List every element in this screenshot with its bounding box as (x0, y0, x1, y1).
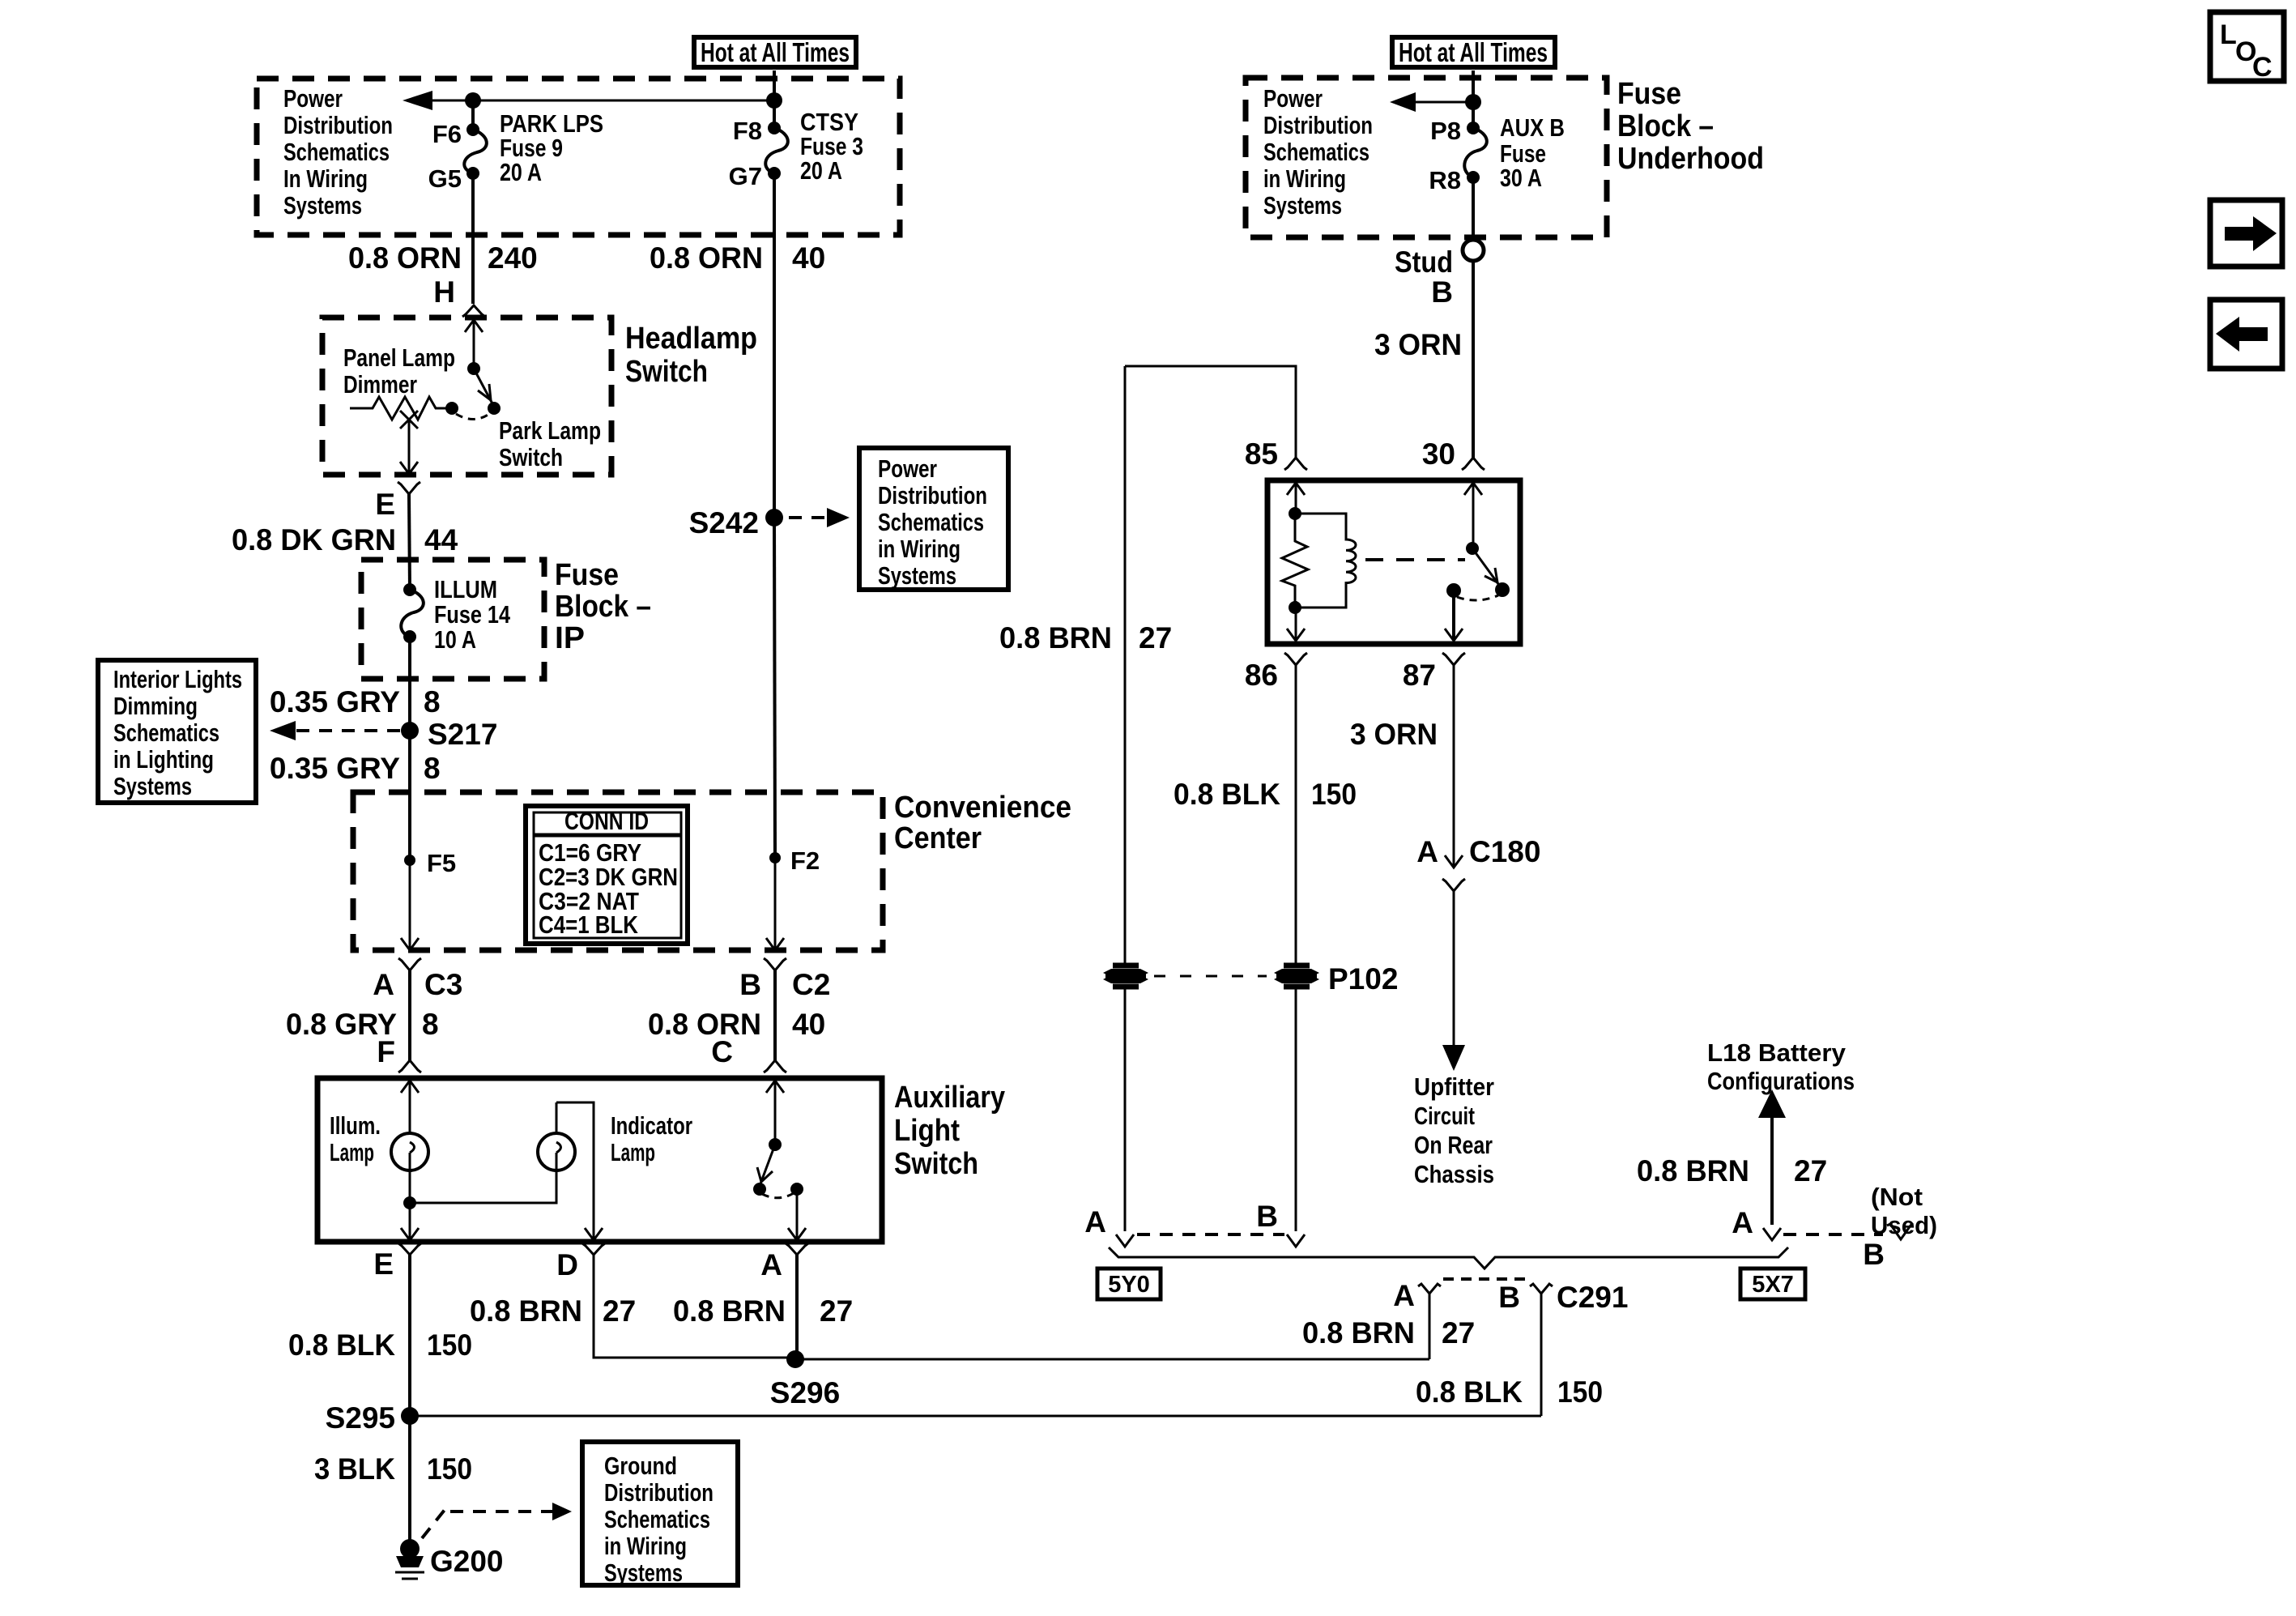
svg-text:Schematics: Schematics (878, 508, 984, 536)
svg-text:0.8 BLK: 0.8 BLK (1416, 1375, 1523, 1409)
svg-text:Block –: Block – (555, 590, 651, 624)
wire: D down and across to S296 (594, 1255, 795, 1358)
wire: E down to S295 (408, 1255, 411, 1416)
svg-text:B: B (739, 968, 761, 1001)
wire: C180 down to upfitter arrow (1442, 891, 1465, 1071)
svg-text:0.8 ORN: 0.8 ORN (650, 241, 763, 275)
label 0.8 ORN 40 / C (648, 1008, 825, 1068)
headlamp switch dashed box (322, 318, 611, 475)
wire: F2 down with exit arrow (766, 858, 784, 950)
note: Ground Distribution Schematics in Wiring Systems (582, 1442, 738, 1587)
svg-text:Dimmer: Dimmer (343, 370, 417, 399)
label 0.8 ORN 240 (348, 241, 538, 309)
wire: feed arrow to power distribution (right) (1390, 92, 1473, 112)
svg-text:Fuse 14: Fuse 14 (434, 600, 511, 629)
svg-text:Distribution: Distribution (604, 1478, 714, 1507)
svg-text:Systems: Systems (283, 191, 362, 220)
auxiliary light switch box (317, 1078, 882, 1242)
svg-text:L: L (2220, 19, 2237, 50)
fuse PARK LPS Fuse 9 20 A (F6-G5) (428, 109, 603, 193)
note: Power Distribution Schematics in Wiring Systems (left) (283, 84, 393, 220)
label Headlamp Switch (625, 322, 757, 389)
svg-text:G7: G7 (729, 162, 762, 190)
svg-text:B: B (1863, 1238, 1885, 1271)
svg-text:87: 87 (1403, 659, 1436, 692)
wire: R8 down to stud (1472, 177, 1475, 241)
connector P102 (B side) (1274, 962, 1398, 996)
svg-text:0.8 ORN: 0.8 ORN (348, 241, 462, 275)
svg-text:Lamp: Lamp (611, 1138, 655, 1166)
svg-text:0.8 BLK: 0.8 BLK (288, 1328, 395, 1362)
label B C2 (739, 968, 830, 1001)
svg-text:in Wiring: in Wiring (878, 535, 961, 563)
wire: lamp link across (410, 1170, 556, 1203)
svg-text:S296: S296 (770, 1376, 840, 1409)
svg-text:Hot at All Times: Hot at All Times (1399, 37, 1548, 67)
svg-text:D: D (556, 1248, 578, 1281)
coil: relay winding (1295, 514, 1356, 608)
connector cup relay 30 (1462, 458, 1485, 470)
svg-text:86: 86 (1245, 659, 1278, 692)
svg-text:Park Lamp: Park Lamp (499, 416, 601, 445)
label 0.8 BRN 27 (85 wire) (999, 621, 1172, 655)
svg-text:C3: C3 (424, 968, 462, 1001)
svg-text:27: 27 (1139, 621, 1172, 655)
svg-text:20 A: 20 A (500, 158, 542, 186)
label 0.8 BRN 27 (L18) (1637, 1154, 1827, 1187)
dashed reference arrow to power distribution (right) (789, 508, 850, 527)
wire: P102 A down to 5Y0 (1116, 988, 1134, 1247)
label 0.8 BRN 27 (D wire) (470, 1294, 636, 1328)
label A B C291 (1393, 1279, 1628, 1314)
wire: 86 long drop (1295, 665, 1297, 964)
wire: C3 to aux light switch (408, 970, 411, 1060)
svg-text:Schematics: Schematics (113, 718, 219, 747)
svg-text:In Wiring: In Wiring (283, 164, 368, 193)
label Auxiliary Light Switch (894, 1081, 1005, 1181)
wire: 87 contact down with exit arrow (1445, 591, 1463, 641)
dashed tie between A and B (1137, 1233, 1284, 1236)
connector cup H into headlamp switch (462, 305, 485, 317)
wire: S217 down into convenience center (408, 731, 411, 860)
wire: illum lamp to junction (409, 1170, 411, 1203)
connector cup A below aux switch (786, 1243, 808, 1255)
svg-text:F: F (377, 1035, 395, 1068)
dashed reference arrow to interior lights dimming (270, 721, 400, 740)
dashed link between P102 halves (1154, 975, 1267, 978)
svg-text:Chassis: Chassis (1414, 1160, 1494, 1188)
wire: entry arrow inside headlamp switch (465, 320, 483, 369)
svg-text:Center: Center (894, 821, 982, 855)
svg-text:F2: F2 (790, 846, 820, 875)
svg-text:3 ORN: 3 ORN (1374, 328, 1462, 361)
wire: 85 entry arrow inside relay (1287, 483, 1305, 514)
node: lamp common junction (403, 1196, 416, 1209)
svg-text:A: A (1732, 1206, 1753, 1239)
connector cup C291 B (1530, 1284, 1553, 1294)
svg-text:0.8 BRN: 0.8 BRN (470, 1294, 582, 1328)
fuse block underhood dashed box (1246, 78, 1607, 237)
wire: A down to S296 (795, 1255, 799, 1359)
svg-text:C: C (711, 1035, 733, 1068)
svg-text:Lamp: Lamp (330, 1138, 374, 1166)
lamp: indicator lamp (538, 1111, 692, 1170)
wire: C291 A stub down (1429, 1294, 1431, 1359)
connector cup F into aux light switch (398, 1060, 421, 1072)
svg-text:0.8 DK GRN: 0.8 DK GRN (232, 523, 396, 556)
switch arm: park lamp switch (474, 369, 494, 407)
LOC page icon (2210, 12, 2284, 83)
svg-text:Underhood: Underhood (1617, 142, 1764, 176)
label Panel Lamp Dimmer (343, 343, 455, 399)
svg-text:240: 240 (488, 241, 538, 275)
convenience center dashed box (353, 792, 883, 950)
svg-text:0.8 BRN: 0.8 BRN (1302, 1316, 1415, 1350)
wire: P102 B down to 5Y0 (1287, 988, 1305, 1247)
svg-text:Switch: Switch (499, 443, 563, 471)
dashed stub to not used B (1783, 1233, 1883, 1236)
wire: junction down with exit arrow E (401, 1203, 419, 1240)
svg-text:Used): Used) (1871, 1211, 1937, 1239)
node: aux switch contact (thrown) (753, 1183, 766, 1196)
wire: S295 down to ground (408, 1416, 411, 1540)
wire: S296 across to C291 A (795, 1358, 1429, 1361)
wire: 87 down to C180 (1445, 665, 1463, 868)
svg-text:Circuit: Circuit (1414, 1102, 1475, 1130)
wire: fuse to S217 (408, 637, 411, 731)
connector cup C2 (764, 958, 786, 970)
fuse ILLUM Fuse 14 10 A (401, 575, 510, 654)
svg-text:0.35 GRY: 0.35 GRY (270, 752, 400, 785)
svg-text:Switch: Switch (894, 1147, 978, 1181)
svg-text:8: 8 (424, 685, 441, 718)
svg-text:Block –: Block – (1617, 109, 1714, 143)
wire: E down to ILLUM fuse (409, 494, 410, 590)
label 3 ORN (87 wire) (1350, 718, 1438, 751)
dashed actuation link (1365, 558, 1465, 561)
svg-text:Fuse: Fuse (555, 558, 619, 592)
lamp: illumination lamp (330, 1111, 428, 1170)
svg-text:E: E (373, 1247, 394, 1281)
svg-text:Schematics: Schematics (1263, 138, 1370, 166)
label 0.8 BRN 27 (C291) (1302, 1316, 1475, 1350)
node F2 (769, 846, 820, 875)
label L18 Battery Configurations (1707, 1038, 1855, 1095)
svg-text:150: 150 (427, 1452, 472, 1486)
resistor: panel lamp dimmer (350, 397, 458, 429)
wire: 85 branch long drop (1124, 366, 1127, 964)
wire: F6 tap down (471, 100, 475, 130)
svg-text:A: A (760, 1248, 782, 1281)
label E / 0.8 DK GRN 44 (232, 488, 458, 556)
label 0.8 BLK 150 (E wire) (288, 1328, 472, 1362)
svg-text:B: B (1498, 1281, 1520, 1314)
svg-text:G200: G200 (430, 1545, 504, 1578)
node: junction dot at F8 column (766, 92, 782, 109)
wire: stud down to relay 30 (1472, 261, 1475, 458)
svg-text:A: A (1084, 1205, 1106, 1239)
label Fuse Block - Underhood (1617, 77, 1764, 176)
wire: S295 across to C291 B (410, 1415, 1541, 1418)
svg-text:Hot at All Times: Hot at All Times (701, 37, 850, 67)
fuse CTSY Fuse 3 20 A (F8-G7) (729, 70, 863, 190)
label Fuse Block - IP (555, 558, 651, 655)
label 85 / 30 (1245, 437, 1455, 471)
wire: G5 down to headlamp switch (471, 173, 475, 304)
svg-text:On Rear: On Rear (1414, 1131, 1493, 1159)
svg-text:ILLUM: ILLUM (434, 575, 497, 603)
svg-text:Distribution: Distribution (283, 111, 393, 139)
label 0.8 ORN 40 (top) (650, 241, 825, 275)
svg-text:40: 40 (792, 241, 825, 275)
prev-page arrow icon (2210, 300, 2282, 369)
label "Hot at All Times" (left) (694, 37, 856, 67)
svg-text:Fuse: Fuse (1617, 77, 1681, 111)
svg-text:Power: Power (283, 84, 343, 113)
connector cup E below aux switch (398, 1243, 421, 1255)
svg-text:H: H (433, 275, 455, 309)
svg-text:in Lighting: in Lighting (113, 745, 214, 774)
connector face 5Y0/5X7 bracket line (1109, 1247, 1788, 1268)
svg-text:85: 85 (1245, 437, 1278, 471)
svg-text:G5: G5 (428, 164, 462, 193)
svg-text:AUX B: AUX B (1500, 113, 1565, 142)
svg-text:C180: C180 (1469, 835, 1540, 868)
connector cup relay 86 (1284, 653, 1307, 665)
connector cup C into aux light switch (764, 1060, 786, 1072)
node F5 (404, 849, 456, 877)
node S296 (770, 1350, 840, 1409)
svg-text:F5: F5 (427, 849, 456, 877)
svg-text:Ground: Ground (604, 1452, 677, 1480)
dashed reference arrow to ground distribution (422, 1503, 572, 1538)
dashed throw arc relay (1457, 595, 1498, 600)
label 86 / 87 (1245, 659, 1436, 692)
connector cup relay 87 (1442, 653, 1465, 665)
label B (not used) (1863, 1238, 1885, 1271)
svg-text:Systems: Systems (1263, 191, 1342, 220)
svg-text:Auxiliary: Auxiliary (894, 1081, 1005, 1115)
svg-text:A: A (1393, 1279, 1415, 1312)
svg-text:E: E (375, 488, 395, 521)
svg-text:Indicator: Indicator (611, 1111, 692, 1140)
connector cup relay 85 (1284, 458, 1307, 470)
wire: C291 B stub down (1540, 1294, 1543, 1416)
svg-text:0.8 BRN: 0.8 BRN (999, 621, 1112, 655)
connector cup C291 A (1418, 1284, 1441, 1294)
svg-text:F6: F6 (432, 120, 462, 148)
svg-text:44: 44 (424, 523, 458, 556)
wire: indicator top loop to D exit (556, 1102, 603, 1240)
svg-text:P102: P102 (1328, 962, 1398, 996)
svg-text:8: 8 (422, 1008, 439, 1041)
wire: dimmer wiper down + exit arrow E (400, 421, 418, 474)
svg-text:Systems: Systems (113, 772, 192, 800)
note: Power Distribution Schematics in Wiring Systems (middle) (859, 448, 1008, 590)
svg-text:S295: S295 (326, 1401, 395, 1435)
connector cup B not used (1887, 1223, 1913, 1239)
node: aux switch pivot (769, 1138, 782, 1151)
wire: 30 entry arrow inside relay (1464, 483, 1482, 548)
fuse block IP dashed box (361, 560, 544, 679)
svg-text:30 A: 30 A (1500, 164, 1542, 192)
wire: L18 feed arrow up (1758, 1089, 1786, 1240)
svg-text:S217: S217 (428, 718, 497, 751)
node S295 (326, 1401, 419, 1435)
fuse AUX B Fuse 30 A (P8-R8) (1429, 70, 1565, 194)
svg-text:8: 8 (424, 752, 441, 785)
svg-text:F8: F8 (733, 117, 762, 145)
label A (L18) (1732, 1206, 1753, 1239)
svg-text:C291: C291 (1557, 1281, 1628, 1314)
CONN ID table (526, 806, 688, 944)
svg-text:10 A: 10 A (434, 625, 476, 654)
svg-text:Power: Power (1263, 84, 1323, 113)
label 0.35 GRY 8 (lower) (270, 752, 441, 785)
wire: F5 down with exit arrow (401, 860, 419, 950)
svg-text:0.8 ORN: 0.8 ORN (648, 1008, 761, 1041)
wire: C2 down to aux light switch (773, 970, 777, 1060)
svg-text:Interior Lights: Interior Lights (113, 665, 242, 693)
label Convenience Center (894, 791, 1071, 855)
svg-text:Configurations: Configurations (1707, 1067, 1855, 1095)
wire: feed to power distribution (arrow left) (403, 91, 774, 110)
wire: 85 feed jog (1125, 366, 1296, 458)
svg-text:Convenience: Convenience (894, 791, 1071, 825)
svg-text:L18 Battery: L18 Battery (1707, 1038, 1847, 1067)
wire: S242 down to F2 (774, 518, 775, 858)
relay box (1267, 480, 1520, 644)
connector C180 (1416, 835, 1540, 891)
svg-text:C4=1 BLK: C4=1 BLK (539, 910, 639, 939)
wire: F entry arrow inside aux switch (401, 1081, 419, 1133)
node: aux switch output contact (790, 1183, 803, 1196)
next-page arrow icon (2210, 200, 2282, 266)
svg-text:Stud: Stud (1395, 245, 1453, 279)
node: relay switch pivot (1466, 542, 1479, 555)
label 0.35 GRY 8 (upper) (270, 685, 441, 718)
svg-text:Switch: Switch (625, 355, 708, 389)
note: Interior Lights Dimming Schematics in Lighting Systems (98, 660, 256, 803)
node: relay coil bottom junction (1289, 601, 1301, 614)
wire: C entry arrow inside aux switch (766, 1081, 784, 1145)
svg-text:Systems: Systems (878, 561, 956, 590)
dashed tie C291 (1443, 1277, 1527, 1281)
label Upfitter Circuit On Rear Chassis (1414, 1072, 1494, 1188)
svg-text:B: B (1256, 1200, 1278, 1233)
label (Not Used) (1871, 1183, 1937, 1239)
wire: G7 heavy feed down to S242 (773, 173, 776, 518)
svg-text:0.8 BRN: 0.8 BRN (673, 1294, 786, 1328)
label 0.8 BLK 150 (86 wire) (1174, 778, 1357, 811)
label 3 BLK 150 (314, 1452, 472, 1486)
label A / B at 5Y0 (1084, 1200, 1278, 1239)
svg-text:IP: IP (555, 621, 585, 655)
svg-text:3 ORN: 3 ORN (1350, 718, 1438, 751)
ground G200 (395, 1539, 504, 1579)
svg-text:30: 30 (1422, 437, 1455, 471)
svg-text:in Wiring: in Wiring (1263, 164, 1346, 193)
label E D A (373, 1247, 782, 1281)
svg-text:27: 27 (1794, 1154, 1827, 1187)
svg-text:P8: P8 (1430, 117, 1461, 145)
svg-text:150: 150 (1311, 778, 1357, 811)
node: relay coil top junction (1289, 507, 1301, 520)
svg-text:Panel Lamp: Panel Lamp (343, 343, 455, 372)
dashed throw arc park lamp switch (456, 414, 489, 420)
svg-text:Distribution: Distribution (1263, 111, 1373, 139)
svg-text:Power: Power (878, 454, 937, 483)
svg-text:C: C (2252, 52, 2273, 83)
label 0.8 BRN 27 (A wire) (673, 1294, 853, 1328)
label 5X7 (1740, 1268, 1805, 1299)
wire: output contact down with exit arrow A (788, 1189, 806, 1240)
node: junction dot on F6 branch (465, 92, 481, 109)
svg-text:A: A (1416, 835, 1438, 868)
node: park lamp switch pivot (467, 362, 480, 375)
svg-text:B: B (1431, 275, 1453, 309)
svg-text:A: A (373, 968, 394, 1001)
svg-text:Systems: Systems (604, 1558, 683, 1587)
svg-text:0.8 BLK: 0.8 BLK (1174, 778, 1280, 811)
svg-text:0.35 GRY: 0.35 GRY (270, 685, 400, 718)
svg-text:Light: Light (894, 1114, 960, 1148)
svg-text:in Wiring: in Wiring (604, 1532, 687, 1560)
connector cup D below aux switch (582, 1243, 605, 1255)
svg-text:S242: S242 (689, 506, 759, 539)
svg-text:27: 27 (1442, 1316, 1475, 1350)
svg-text:(Not: (Not (1871, 1183, 1923, 1211)
svg-text:27: 27 (603, 1294, 636, 1328)
label 0.8 GRY 8 / F (286, 1008, 439, 1068)
svg-text:3 BLK: 3 BLK (314, 1452, 395, 1486)
svg-text:Illum.: Illum. (330, 1111, 381, 1140)
stud terminal B (1395, 240, 1484, 309)
label A C3 (373, 968, 462, 1001)
switch arm: relay (1472, 548, 1501, 587)
label 3 ORN (upper) (1374, 328, 1462, 361)
svg-text:5X7: 5X7 (1752, 1272, 1794, 1298)
connector cup E below headlamp switch (398, 482, 420, 494)
svg-text:CONN ID: CONN ID (564, 807, 649, 835)
switch arm: aux light switch (757, 1145, 775, 1186)
svg-text:Schematics: Schematics (283, 138, 390, 166)
svg-text:5Y0: 5Y0 (1108, 1272, 1150, 1298)
svg-text:Schematics: Schematics (604, 1505, 710, 1533)
connector P102 (A side) (1103, 966, 1148, 987)
svg-text:150: 150 (427, 1328, 472, 1362)
node: park lamp switch contact (488, 402, 501, 415)
resistor: relay internal (1282, 514, 1308, 608)
svg-text:Upfitter: Upfitter (1414, 1072, 1494, 1101)
node S217 (401, 718, 497, 751)
svg-text:27: 27 (820, 1294, 853, 1328)
node: junction dot at P8 column (1465, 94, 1481, 110)
svg-text:Dimming: Dimming (113, 692, 198, 720)
wire: 86 down with exit arrow (1287, 601, 1305, 641)
label 5Y0 (1097, 1268, 1161, 1299)
connector cup C3 (398, 958, 421, 970)
svg-text:0.8 BRN: 0.8 BRN (1637, 1154, 1749, 1187)
node: relay contact 87 (1446, 583, 1461, 598)
note: Power Distribution Schematics in Wiring Systems (right) (1263, 84, 1373, 220)
dashed throw arc aux switch (762, 1193, 794, 1198)
svg-text:Headlamp: Headlamp (625, 322, 757, 356)
svg-text:C2: C2 (792, 968, 830, 1001)
svg-text:Distribution: Distribution (878, 481, 987, 510)
fuse block I/P dashed box (257, 79, 900, 235)
node S242 (689, 506, 783, 539)
